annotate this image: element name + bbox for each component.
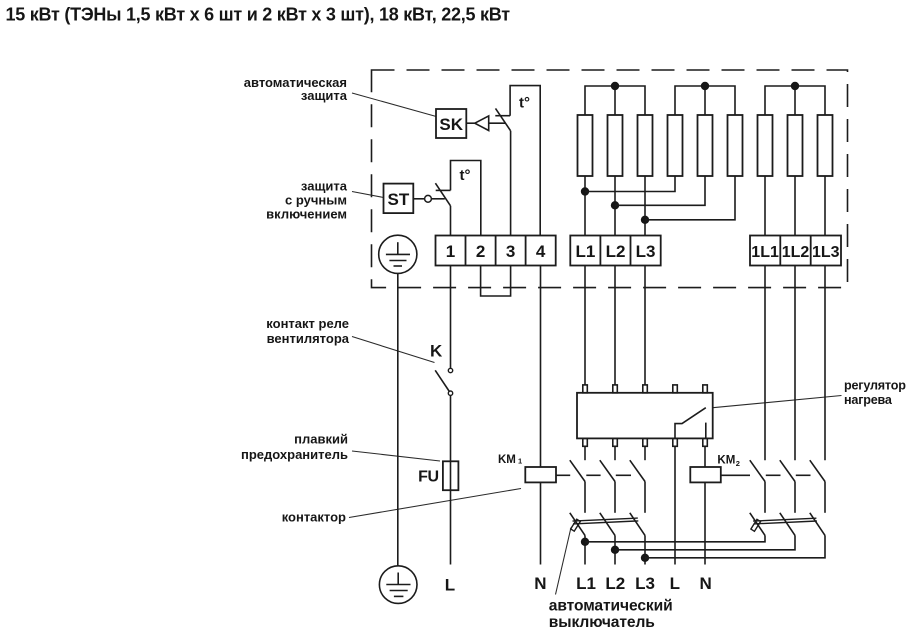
svg-text:защита: защита <box>301 179 348 194</box>
wire regulator pin9 to L end <box>674 446 676 564</box>
wire regulator pin6 to KM1 contact 1 <box>584 446 586 460</box>
svg-text:плавкий: плавкий <box>294 432 348 447</box>
dashed enclosure border <box>372 70 848 288</box>
manual reset button circle <box>425 195 432 202</box>
regulator bottom pins <box>583 438 708 446</box>
contact K bottom circle <box>448 391 452 395</box>
svg-text:t°: t° <box>519 95 530 112</box>
svg-text:выключатель: выключатель <box>549 614 655 631</box>
wire EK2 to terminal L2 <box>614 176 616 236</box>
svg-text:N: N <box>534 574 546 593</box>
node bus3 <box>641 554 649 562</box>
leader to contact K <box>352 337 435 363</box>
leader to FU <box>352 451 440 461</box>
wire fuse to L end <box>450 490 452 564</box>
wire terminal L1 to regulator pin 1 <box>584 266 586 386</box>
svg-text:L1: L1 <box>576 574 596 593</box>
KM1 contact 1 blade <box>570 460 585 481</box>
node bus1 <box>581 538 589 546</box>
wire SK to triangle <box>466 122 475 124</box>
svg-text:4: 4 <box>536 242 546 261</box>
breaker QF1 blades <box>570 513 585 536</box>
bus wire 1 <box>585 535 765 541</box>
contact K blade <box>435 370 450 392</box>
svg-text:1: 1 <box>446 242 455 261</box>
heat regulator box <box>577 393 713 439</box>
svg-text:включением: включением <box>266 207 347 222</box>
regulator internal switch <box>675 408 706 439</box>
link wire EK4 to L1 <box>585 176 675 192</box>
node group1 top <box>611 82 619 90</box>
svg-text:с ручным: с ручным <box>285 193 347 208</box>
wire regulator pin8 to KM1 contact 3 <box>644 446 646 460</box>
heater EK5 <box>698 115 713 176</box>
wire regulator pin10 to KM2 coil <box>704 446 706 467</box>
terminal block 1L1 1L2 1L3 <box>750 236 841 266</box>
breaker QF2 linkage bar <box>753 518 817 524</box>
svg-text:автоматический: автоматический <box>549 597 673 614</box>
svg-text:2: 2 <box>476 242 485 261</box>
breaker QF2 handle <box>751 519 761 531</box>
svg-text:предохранитель: предохранитель <box>241 447 348 462</box>
PE wire down <box>397 273 399 565</box>
group3 top bus wire <box>765 86 825 115</box>
wire EK1 to terminal L1 <box>584 176 586 236</box>
heater EK1 <box>578 115 593 176</box>
wires KM1 contacts to breaker <box>584 482 586 513</box>
svg-text:ST: ST <box>388 190 410 209</box>
wire terminal 1L2 to KM2 contact 2 <box>794 266 796 461</box>
heater EK3 <box>638 115 653 176</box>
wire EK7 to terminal 1L1 <box>764 176 766 236</box>
thermostat t° (SK) capillary loop <box>510 86 540 236</box>
svg-text:L2: L2 <box>606 242 626 261</box>
relay SK box <box>436 109 466 138</box>
node group3 top <box>791 82 799 90</box>
regulator top pins <box>583 385 708 393</box>
wire KM2 coil to N end <box>704 482 706 564</box>
svg-text:1L3: 1L3 <box>812 244 840 261</box>
thermostat ST blade <box>435 183 450 206</box>
wire ST to reset button <box>413 198 424 200</box>
svg-text:L: L <box>670 574 680 593</box>
heater EK6 <box>728 115 743 176</box>
wire blade to terminal 1 <box>450 206 452 236</box>
KM1 contact 3 blade <box>630 460 645 481</box>
node group2 top <box>701 82 709 90</box>
leader to KM1 coil <box>349 489 521 518</box>
wire regulator pin7 to KM1 contact 2 <box>614 446 616 460</box>
wire button to thermostat blade <box>431 198 444 200</box>
KM2 contact 2 blade <box>780 460 795 481</box>
breaker QF1 output wires <box>584 535 586 564</box>
svg-text:1L2: 1L2 <box>782 244 810 261</box>
svg-text:1L1: 1L1 <box>751 244 779 261</box>
svg-text:t°: t° <box>460 167 471 184</box>
terminal block L1 L2 L3 <box>570 236 660 266</box>
svg-text:2: 2 <box>736 459 740 468</box>
terminal block 1-4 <box>436 236 556 266</box>
triangle sensor symbol <box>475 116 489 131</box>
U-loop wire terminals 2-3 <box>481 266 511 297</box>
breaker QF1 linkage bar <box>573 518 639 524</box>
svg-text:FU: FU <box>418 468 438 485</box>
leader to regulator <box>713 396 842 408</box>
link wire EK5 to L2 <box>615 176 705 205</box>
wire terminal L3 to regulator pin 3 <box>644 266 646 386</box>
contactor coil KM1 <box>525 467 556 482</box>
svg-text:L1: L1 <box>575 242 595 261</box>
node L1 link <box>581 187 589 195</box>
wire contact K to fuse FU <box>450 395 452 461</box>
wire terminal 1 down to contact K <box>450 266 452 369</box>
svg-text:нагрева: нагрева <box>844 393 893 407</box>
thermostat t° (ST) capillary loop <box>451 161 481 236</box>
KM1 linkage line <box>556 474 631 476</box>
KM2 contact 1 blade <box>750 460 765 481</box>
wire terminal 1L3 to KM2 contact 3 <box>824 266 826 461</box>
bus wire 3 <box>645 535 825 557</box>
svg-text:L3: L3 <box>635 574 655 593</box>
heater EK7 <box>758 115 773 176</box>
svg-text:регулятор: регулятор <box>844 379 906 393</box>
wire EK8 to terminal 1L2 <box>794 176 796 236</box>
wire EK9 to terminal 1L3 <box>824 176 826 236</box>
KM1 contact 2 blade <box>600 460 615 481</box>
svg-text:15 кВт (ТЭНы 1,5 кВт х 6 шт и: 15 кВт (ТЭНы 1,5 кВт х 6 шт и 2 кВт х 3 … <box>6 5 511 25</box>
upper PE ground symbol <box>379 235 417 273</box>
wire blade to terminal 3 <box>510 131 512 236</box>
wire terminal 1L1 to KM2 contact 1 <box>764 266 766 461</box>
fuse FU <box>443 461 459 490</box>
svg-text:1: 1 <box>518 457 522 466</box>
thermostat ST fixed contact stub <box>436 189 451 191</box>
node bus2 <box>611 546 619 554</box>
breaker QF2 blades <box>750 513 765 536</box>
wire terminal 4 down to KM1 coil <box>540 266 542 468</box>
svg-text:KM: KM <box>498 454 516 466</box>
group1 middle top stub <box>614 86 616 115</box>
svg-text:вентилятора: вентилятора <box>267 331 350 346</box>
heater EK8 <box>788 115 803 176</box>
link wire EK6 to L3 <box>645 176 735 220</box>
svg-text:3: 3 <box>506 242 515 261</box>
relay ST box <box>384 184 414 214</box>
node L2 link <box>611 201 619 209</box>
KM2 linkage line <box>721 474 811 476</box>
svg-text:L: L <box>445 576 455 595</box>
svg-text:SK: SK <box>439 115 463 134</box>
svg-text:контакт реле: контакт реле <box>266 316 349 331</box>
thermostat SK blade <box>496 108 511 130</box>
leader to ST <box>352 192 384 198</box>
svg-text:KM: KM <box>717 455 735 467</box>
group1 top bus wire <box>585 86 645 115</box>
svg-text:N: N <box>700 574 712 593</box>
svg-text:K: K <box>430 341 443 360</box>
svg-text:защита: защита <box>301 88 348 103</box>
KM2 contact 3 blade <box>810 460 825 481</box>
wire triangle to thermostat blade <box>489 122 506 124</box>
heater EK4 <box>668 115 683 176</box>
wire EK3 to terminal L3 <box>644 176 646 236</box>
svg-text:контактор: контактор <box>282 510 346 525</box>
breaker QF1 handle <box>571 519 581 531</box>
wire terminal L2 to regulator pin 2 <box>614 266 616 386</box>
thermostat SK fixed contact stub <box>495 115 510 117</box>
wires KM2 contacts to breaker QF2 <box>764 482 766 513</box>
wire KM1 coil to N end <box>540 482 542 564</box>
bus wire 2 <box>615 535 795 549</box>
lower PE ground symbol <box>379 566 417 604</box>
group3 middle top stub <box>794 86 796 115</box>
contact K top circle <box>448 368 452 372</box>
heater EK2 <box>608 115 623 176</box>
leader to SK <box>352 93 436 116</box>
node L3 link <box>641 216 649 224</box>
heater EK9 <box>818 115 833 176</box>
leader to breaker handle <box>556 528 572 595</box>
group2 middle top stub <box>704 86 706 115</box>
group2 top bus wire <box>675 86 735 115</box>
svg-text:L3: L3 <box>636 242 656 261</box>
contactor coil KM2 <box>690 467 721 482</box>
svg-text:L2: L2 <box>605 574 625 593</box>
